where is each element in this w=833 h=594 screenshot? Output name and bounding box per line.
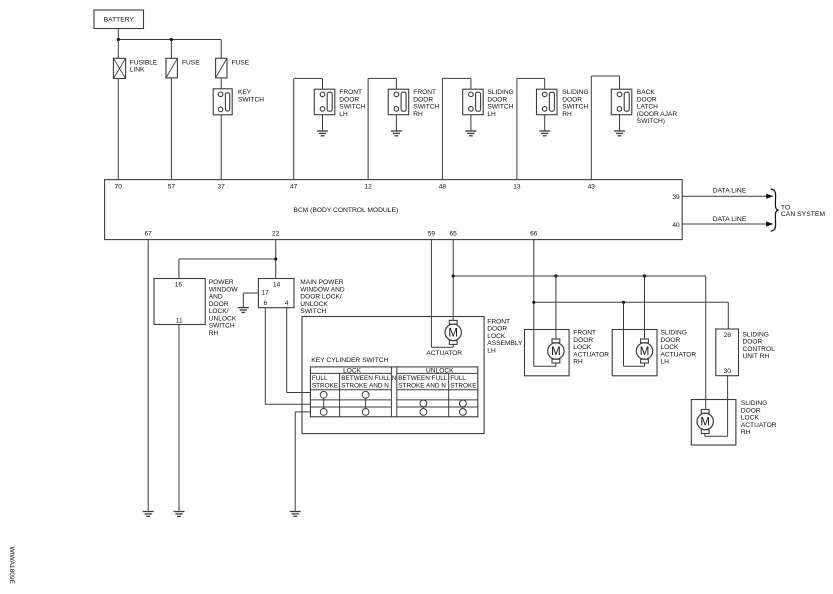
svg-text:BETWEEN FULL: BETWEEN FULL [398,375,447,382]
svg-text:N: N [392,375,397,382]
svg-text:43: 43 [588,184,596,191]
svg-text:LOCK: LOCK [661,344,680,351]
svg-text:RH: RH [741,429,751,436]
svg-text:LOCK: LOCK [343,368,362,375]
svg-text:DATA LINE: DATA LINE [713,188,747,195]
svg-text:SWITCH: SWITCH [413,104,439,111]
svg-text:37: 37 [218,184,226,191]
svg-text:AND: AND [209,294,223,301]
svg-text:SWITCH: SWITCH [238,96,264,103]
svg-text:SWITCH: SWITCH [209,323,235,330]
svg-text:BACK: BACK [637,89,656,96]
svg-text:17: 17 [261,289,269,296]
svg-text:14: 14 [273,281,281,288]
svg-text:RH: RH [413,111,423,118]
svg-text:6: 6 [263,300,267,307]
svg-text:BATTERY: BATTERY [104,17,135,24]
svg-text:UNLOCK: UNLOCK [209,315,237,322]
svg-text:M: M [640,346,650,358]
svg-text:39: 39 [672,194,680,201]
svg-text:30: 30 [724,368,732,375]
svg-text:48: 48 [439,184,447,191]
svg-text:M: M [700,417,710,429]
svg-text:SLIDING: SLIDING [661,330,687,337]
svg-text:70: 70 [115,184,123,191]
svg-text:SLIDING: SLIDING [487,89,513,96]
svg-text:DOOR: DOOR [413,96,433,103]
svg-text:CONTROL: CONTROL [743,346,776,353]
svg-text:LOCK/: LOCK/ [209,308,229,315]
svg-text:DOOR: DOOR [487,326,507,333]
svg-text:FRONT: FRONT [573,330,596,337]
svg-text:UNIT RH: UNIT RH [743,353,770,360]
svg-text:SWITCH): SWITCH) [637,118,665,125]
svg-text:FRONT: FRONT [339,89,362,96]
svg-text:SWITCH: SWITCH [562,104,588,111]
svg-text:RH: RH [573,359,583,366]
svg-text:BETWEEN FULL: BETWEEN FULL [341,375,390,382]
svg-text:DOOR: DOOR [741,407,761,414]
svg-text:MAIN POWER: MAIN POWER [300,279,343,286]
svg-text:LH: LH [487,347,496,354]
svg-text:FRONT: FRONT [487,318,510,325]
svg-text:LOCK: LOCK [487,333,506,340]
svg-text:CAN SYSTEM: CAN SYSTEM [781,211,826,218]
svg-text:UNLOCK: UNLOCK [300,301,328,308]
svg-text:FULL: FULL [450,375,466,382]
svg-text:SLIDING: SLIDING [741,400,767,407]
svg-text:LOCK: LOCK [741,415,760,422]
svg-text:WINDOW AND: WINDOW AND [300,286,345,293]
svg-text:(DOOR AJAR: (DOOR AJAR [637,111,678,118]
svg-text:DOOR LOCK/: DOOR LOCK/ [300,294,342,301]
svg-text:12: 12 [364,184,372,191]
svg-text:40: 40 [672,222,680,229]
svg-text:SWITCH: SWITCH [339,104,365,111]
svg-text:WIWA1809E: WIWA1809E [8,547,15,585]
svg-text:SWITCH: SWITCH [487,104,513,111]
svg-text:DOOR: DOOR [573,337,593,344]
svg-text:FUSE: FUSE [182,60,200,67]
svg-text:SWITCH: SWITCH [300,308,326,315]
svg-text:LOCK: LOCK [573,344,592,351]
svg-text:57: 57 [168,184,176,191]
svg-text:DOOR: DOOR [562,96,582,103]
svg-text:FUSIBLE: FUSIBLE [130,59,158,66]
svg-text:WINDOW: WINDOW [209,286,239,293]
svg-text:LH: LH [487,111,496,118]
svg-text:DOOR: DOOR [487,96,507,103]
svg-text:67: 67 [145,231,153,238]
svg-text:LH: LH [661,359,670,366]
svg-text:13: 13 [513,184,521,191]
svg-text:FRONT: FRONT [413,89,436,96]
svg-text:DOOR: DOOR [743,339,763,346]
svg-text:28: 28 [724,332,732,339]
svg-text:ACTUATOR: ACTUATOR [661,351,697,358]
svg-text:FUSE: FUSE [232,60,250,67]
svg-text:STROKE AND N: STROKE AND N [398,382,446,389]
svg-text:RH: RH [562,111,572,118]
svg-text:ACTUATOR: ACTUATOR [426,350,462,357]
svg-text:M: M [551,346,561,358]
svg-text:SLIDING: SLIDING [562,89,588,96]
svg-text:FULL: FULL [312,375,328,382]
svg-text:4: 4 [285,300,289,307]
svg-text:59: 59 [428,231,436,238]
svg-text:RH: RH [209,330,219,337]
svg-text:BCM (BODY CONTROL MODULE): BCM (BODY CONTROL MODULE) [293,207,398,214]
svg-text:DOOR: DOOR [661,337,681,344]
svg-text:ASSEMBLY: ASSEMBLY [487,340,523,347]
svg-text:STROKE: STROKE [312,382,338,389]
svg-text:LINK: LINK [130,67,145,74]
svg-text:DOOR: DOOR [339,96,359,103]
svg-text:LH: LH [339,111,348,118]
svg-text:STROKE AND N: STROKE AND N [341,382,389,389]
svg-text:47: 47 [290,184,298,191]
svg-text:DOOR: DOOR [637,96,657,103]
svg-text:M: M [448,327,458,339]
svg-text:LATCH: LATCH [637,104,658,111]
svg-text:KEY: KEY [238,89,252,96]
svg-text:UNLOCK: UNLOCK [426,368,454,375]
svg-text:DOOR: DOOR [209,301,229,308]
svg-text:ACTUATOR: ACTUATOR [741,422,777,429]
svg-text:65: 65 [450,231,458,238]
svg-text:DATA LINE: DATA LINE [713,216,747,223]
svg-text:11: 11 [176,318,183,325]
svg-text:ACTUATOR: ACTUATOR [573,351,609,358]
svg-text:SLIDING: SLIDING [743,331,769,338]
svg-text:16: 16 [175,282,183,289]
svg-text:KEY CYLINDER SWITCH: KEY CYLINDER SWITCH [311,357,388,364]
svg-text:POWER: POWER [209,279,234,286]
svg-text:STROKE: STROKE [450,382,476,389]
svg-text:66: 66 [530,231,538,238]
svg-text:22: 22 [272,231,280,238]
